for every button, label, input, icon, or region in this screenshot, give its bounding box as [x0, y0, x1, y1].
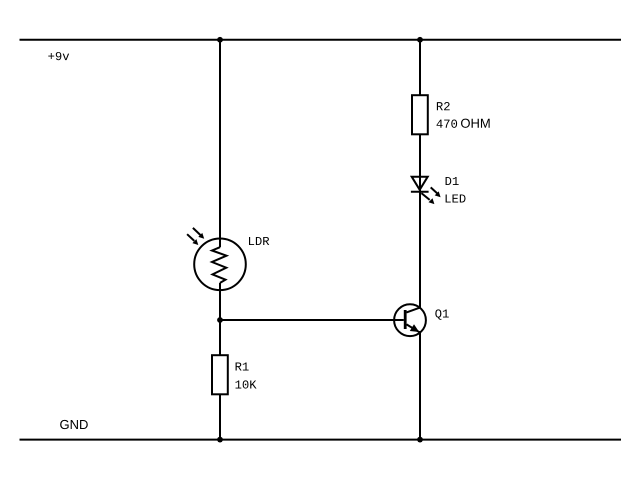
- value 470 OHM: [437, 120, 458, 128]
- LED D1 triangle: [412, 177, 428, 190]
- transistor Q1 circle: [394, 304, 426, 336]
- +9v rail: [20, 39, 622, 41]
- wire: LDR to junction to R1: [219, 283, 221, 355]
- label Q1: [435, 309, 448, 319]
- wire: R1 to GND rail: [219, 395, 221, 440]
- node: R1 / GND junction: [217, 437, 223, 443]
- wire: +9v rail to LDR zigzag: [219, 40, 221, 247]
- node: LDR / R1 / base junction: [217, 317, 223, 323]
- label D1: [446, 177, 459, 185]
- LED light arrow 1: [431, 187, 441, 197]
- LDR light arrow 1: [193, 228, 204, 239]
- label GND: [60, 420, 88, 429]
- label R1: [236, 362, 249, 370]
- LDR light arrow 2: [187, 234, 198, 245]
- node: +9v / LDR junction: [217, 37, 223, 43]
- label +9v: [48, 52, 69, 60]
- wire: R2 through LED to Q1 collector: [419, 135, 421, 308]
- GND rail: [20, 439, 622, 441]
- LED D1 cathode bar: [411, 191, 429, 193]
- wire: +9v rail to R2: [419, 40, 421, 95]
- label R2: [437, 102, 450, 110]
- label LDR: [249, 237, 269, 245]
- resistor R1: [212, 355, 228, 394]
- node: +9v / R2 junction: [417, 37, 423, 43]
- LED light arrow 2: [421, 193, 434, 204]
- LDR circle: [194, 238, 246, 290]
- node: Q1 emitter / GND junction: [417, 437, 423, 443]
- value 10K: [235, 380, 256, 388]
- Q1 base bar: [404, 310, 407, 329]
- LDR resistor zigzag: [212, 247, 227, 283]
- wire: base from junction to Q1: [220, 319, 404, 321]
- value LED: [446, 194, 466, 202]
- Q1 emitter diagonal: [407, 324, 420, 332]
- wire: Q1 emitter to GND rail: [419, 331, 421, 440]
- Q1 collector diagonal: [407, 308, 421, 313]
- resistor R2: [412, 95, 428, 134]
- Q1 emitter arrowhead: [410, 324, 419, 332]
